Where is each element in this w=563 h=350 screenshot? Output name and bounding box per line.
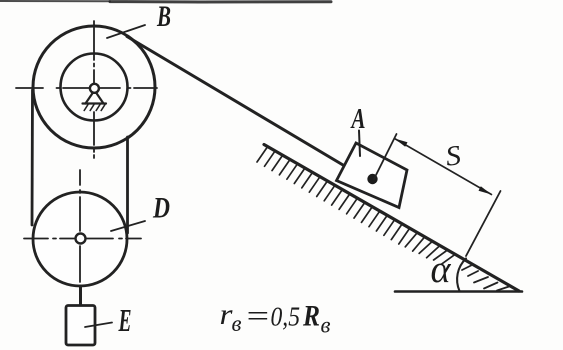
svg-text:0,5: 0,5 bbox=[271, 302, 301, 332]
svg-text:в: в bbox=[321, 313, 331, 338]
svg-text:B: B bbox=[156, 0, 171, 33]
svg-text:в: в bbox=[232, 311, 242, 336]
svg-text:R: R bbox=[302, 300, 320, 333]
svg-text:A: A bbox=[350, 103, 365, 135]
svg-text:α: α bbox=[431, 248, 452, 291]
svg-text:D: D bbox=[152, 192, 170, 225]
svg-text:=: = bbox=[244, 300, 271, 333]
svg-text:E: E bbox=[118, 302, 132, 338]
